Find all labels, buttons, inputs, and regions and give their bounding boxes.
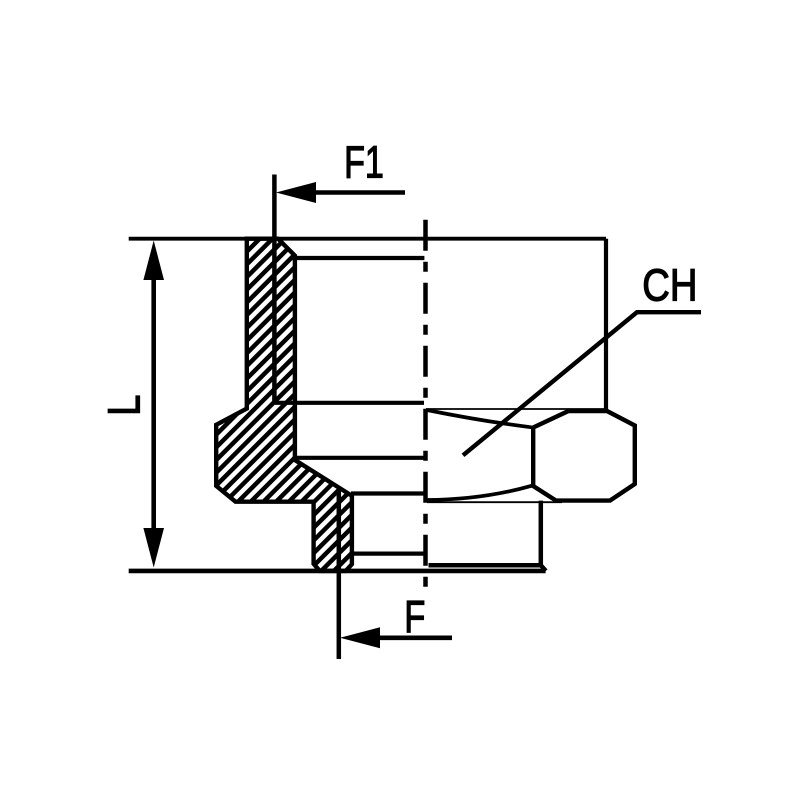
bore shoulder line 5 [351,551,427,555]
hex bottom ridge thin line [427,501,562,503]
svg-text:L: L [99,395,150,416]
bottom outline line [129,569,546,574]
dimension L line [151,278,156,529]
male boss below hex: right edge [539,501,544,566]
svg-text:F1: F1 [344,137,384,188]
dimension F arrowhead [340,627,380,648]
hex chamfer arc bottom [427,486,532,500]
dimension F1 arrow line [314,190,405,195]
dashed centerline [423,220,428,590]
hex nut side view outline [533,411,635,501]
dimension F arrow line [378,635,452,640]
top outline line [129,237,606,241]
svg-text:CH: CH [642,260,697,311]
hatched section body (left cut of fitting) [216,239,352,571]
male boss end chamfer [541,565,546,571]
male boss bottom edge [429,563,541,568]
bore shoulder line 1 [291,256,424,260]
bore shoulder line 2 [275,401,424,405]
dimension F1 arrowhead [276,182,316,203]
thread line lower (F extension continues below) [337,489,342,659]
hex top ridge thin line [426,408,606,410]
dimension L arrow up [143,241,164,281]
svg-text:F: F [404,591,425,642]
CH leader line [463,312,701,455]
dimension L arrow down [143,528,164,568]
hex chamfer arc top [427,410,532,427]
thread line upper (F1 extension continues into section) [272,175,277,403]
right edge of body [604,239,608,412]
bore shoulder line 4 [351,491,425,495]
bore shoulder line 3 [295,456,425,460]
